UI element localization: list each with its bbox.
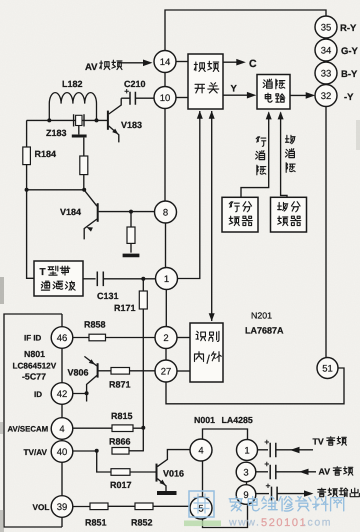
pin 2	[155, 327, 177, 349]
svg-text:TV/AV: TV/AV	[24, 448, 48, 457]
svg-text:39: 39	[57, 502, 68, 513]
polarity mark cap1	[265, 440, 269, 444]
wire R017 to V016 base	[130, 471, 156, 473]
svg-text:R-Y: R-Y	[340, 23, 357, 34]
label 通滤波	[41, 281, 49, 290]
box video switch 视频开关	[188, 54, 223, 109]
wire R852 to pin5	[153, 505, 190, 507]
wire pin10 to video switch	[176, 97, 188, 99]
resistor R866	[112, 448, 129, 455]
svg-text:.com: .com	[303, 517, 332, 529]
wire R871 to pin27	[130, 370, 156, 372]
wire bottom node rail	[27, 189, 85, 191]
svg-text:R866: R866	[109, 437, 131, 447]
svg-text:IF ID: IF ID	[24, 334, 42, 343]
wire R185 to bottom node	[83, 175, 85, 190]
node pin40 branch	[95, 449, 99, 453]
wire pin39 to R851	[73, 506, 90, 508]
inductor L182	[49, 93, 96, 121]
wire R815 to node	[133, 427, 143, 429]
svg-text:4: 4	[198, 445, 203, 456]
wire Y to blanking box	[223, 94, 253, 96]
resistor R171	[142, 279, 144, 291]
pin 5 of N001	[190, 497, 212, 519]
pin 1 of N001	[237, 440, 258, 461]
svg-text:B-Y: B-Y	[341, 69, 358, 80]
wire field-blank input	[281, 113, 287, 198]
resistor R184	[23, 147, 31, 165]
box line divider 行分频器	[222, 197, 258, 232]
label 电路	[265, 93, 272, 102]
wire node down to R017	[97, 451, 111, 472]
wire line-blank input	[241, 113, 269, 198]
svg-text:T: T	[40, 267, 46, 278]
label 识别	[196, 331, 205, 340]
label 内/外	[195, 352, 204, 362]
wire pin32 to pin51	[325, 106, 327, 357]
wire pin14 to pin10	[164, 73, 166, 87]
svg-text:Y: Y	[231, 84, 238, 95]
wire C output	[223, 61, 243, 63]
svg-text:42: 42	[57, 389, 68, 400]
pin 42	[51, 383, 73, 405]
pin 4 of N801	[51, 418, 73, 440]
Z183 bottom electrode bar	[78, 126, 80, 135]
pin 4 of N001	[190, 439, 212, 461]
wire AV video into pin14	[119, 62, 150, 64]
svg-text:520101: 520101	[261, 517, 307, 529]
wire V184 base to pin8	[99, 211, 155, 213]
wire pin14 to video switch	[176, 61, 188, 63]
wire pin3 to cap	[256, 471, 268, 473]
transistor V016	[156, 464, 158, 482]
svg-text:33: 33	[321, 68, 332, 79]
svg-text:R851: R851	[85, 518, 107, 528]
pin 1 of N201	[156, 268, 178, 290]
transistor V806	[97, 363, 99, 377]
label 场消隐 vertical	[285, 135, 295, 143]
svg-text:N801: N801	[24, 349, 45, 359]
pin 14	[154, 51, 176, 73]
polarity mark cap3	[266, 484, 270, 488]
pin 51	[317, 358, 338, 379]
svg-text:R171: R171	[114, 303, 136, 313]
label 行分	[229, 202, 239, 212]
svg-text:C131: C131	[97, 291, 119, 301]
label 音频输出	[318, 488, 326, 497]
svg-text:1: 1	[164, 274, 169, 285]
box IC N801	[4, 314, 62, 527]
watermark 家电维修资料网	[229, 497, 242, 511]
pin 35	[315, 16, 337, 38]
box field divider 场分频器	[271, 197, 307, 232]
svg-text:R852: R852	[131, 518, 153, 528]
svg-text:AV: AV	[85, 62, 98, 73]
wire pin46 to R858	[73, 337, 89, 339]
node at C131/R171	[141, 277, 145, 281]
wire R851 to R852	[108, 505, 135, 507]
pin 9 of N001	[236, 485, 256, 505]
ceramic filter Z183	[76, 115, 82, 125]
resistor R858	[89, 334, 106, 341]
wire pin4 to R815	[73, 427, 112, 429]
svg-text:32: 32	[321, 91, 332, 102]
pin 10	[154, 87, 176, 109]
wire cap to AV audio	[276, 471, 316, 473]
svg-text:LA4285: LA4285	[222, 415, 253, 425]
svg-text:C210: C210	[124, 79, 146, 89]
capacitor AV audio	[270, 465, 276, 480]
resistor R185 below Z183	[80, 156, 88, 175]
svg-text:2: 2	[163, 333, 168, 344]
svg-text:R184: R184	[35, 149, 57, 159]
pin 3 of N001	[236, 462, 256, 482]
box T-type bandpass filter	[34, 261, 83, 296]
pin 8	[155, 201, 177, 223]
wire pin10 to pin8	[164, 109, 166, 202]
capacitor C131	[83, 278, 96, 280]
svg-text:34: 34	[321, 45, 332, 56]
svg-text:40: 40	[57, 447, 68, 458]
svg-text:8: 8	[163, 207, 168, 218]
capacitor C210	[130, 92, 135, 105]
pin 39	[51, 496, 73, 518]
svg-text:35: 35	[321, 22, 332, 33]
polarity mark cap2	[265, 462, 269, 466]
resistor R below pin8 node	[127, 227, 135, 243]
box discriminator 识别内/外	[190, 323, 223, 382]
svg-text:VOL: VOL	[33, 503, 50, 512]
svg-text:N201: N201	[251, 311, 272, 321]
pin 33	[315, 62, 337, 84]
label 消隐	[263, 79, 272, 88]
wire cap to TV audio	[276, 449, 313, 451]
pin 40	[51, 441, 73, 463]
wire blanking to pin32	[290, 94, 312, 96]
svg-text:N001: N001	[194, 415, 215, 425]
node on base wire	[129, 210, 133, 214]
svg-text:R858: R858	[84, 320, 106, 330]
wire pin40 to node	[73, 450, 97, 452]
label 频器(2)	[278, 216, 288, 225]
svg-text:V806: V806	[68, 368, 89, 378]
svg-text:R017: R017	[110, 480, 132, 490]
wire pin42 to V806	[73, 393, 87, 401]
watermark logo box	[189, 491, 214, 517]
svg-text:14: 14	[160, 57, 171, 68]
wire pin27 to box	[177, 370, 190, 372]
wire R866 to R171 rail	[129, 450, 144, 452]
wire pin2 to pin27	[165, 349, 167, 361]
wire pin27 loop to pin51	[166, 368, 344, 404]
watermark green bar	[184, 521, 221, 527]
resistor R871	[111, 368, 130, 375]
svg-text:V184: V184	[60, 207, 81, 217]
wire L182-left down to R184	[26, 120, 28, 147]
wire top bus from pin14 to pin35	[165, 10, 326, 50]
resistor R851	[90, 503, 108, 510]
svg-text:4: 4	[59, 424, 64, 435]
svg-text:AV: AV	[319, 467, 331, 477]
wire pin1 to pin2	[165, 290, 167, 327]
svg-text:27: 27	[161, 366, 172, 377]
node bottom right	[82, 188, 86, 192]
svg-text:51: 51	[322, 363, 333, 374]
resistor R017	[111, 469, 130, 476]
svg-text:L182: L182	[62, 79, 83, 89]
capacitor audio out	[272, 487, 278, 501]
wire pin1 up to video switch	[178, 111, 200, 279]
wire R858 to pin2	[106, 337, 156, 339]
pin 46	[51, 327, 73, 349]
wire cap to audio out	[277, 493, 310, 495]
svg-text:LC864512V: LC864512V	[13, 362, 57, 371]
svg-text:ID: ID	[34, 390, 42, 399]
transistor V183	[107, 111, 109, 130]
svg-text:www.: www.	[228, 517, 261, 529]
svg-text:R871: R871	[109, 380, 131, 390]
pin 27	[155, 360, 177, 382]
svg-text:46: 46	[57, 333, 68, 344]
wire R184 to bottom rail and T-filter	[27, 165, 34, 279]
svg-text:G-Y: G-Y	[341, 46, 359, 57]
svg-text:AV/SECAM: AV/SECAM	[8, 425, 49, 434]
node pin42/V806	[85, 391, 89, 395]
node at L182 right	[95, 118, 99, 122]
svg-text:Z183: Z183	[46, 128, 67, 138]
svg-text:-5C77: -5C77	[22, 372, 46, 382]
node at L182 left	[47, 118, 51, 122]
ground under resistor	[123, 254, 140, 258]
svg-text:1: 1	[244, 445, 249, 456]
box blanking circuit 消隐电路	[257, 75, 290, 110]
svg-text:V183: V183	[121, 120, 142, 130]
pin 34	[315, 39, 337, 61]
ground under V016	[157, 491, 177, 495]
label 视频	[194, 62, 205, 71]
label 行消隐 vertical	[256, 137, 266, 147]
svg-text:-Y: -Y	[344, 92, 354, 103]
svg-text:R815: R815	[111, 411, 133, 421]
svg-text:C: C	[249, 58, 257, 70]
wire pin8 to pin1	[165, 223, 167, 268]
wire video switch to discriminator box	[211, 111, 213, 321]
svg-text:TV: TV	[313, 437, 324, 447]
polarity mark C210	[125, 89, 129, 93]
svg-text:V016: V016	[163, 469, 184, 479]
wire pin2 to box	[177, 337, 190, 339]
capacitor TV audio	[270, 443, 276, 458]
box IC N001 LA4285	[203, 429, 248, 440]
node bottom left	[25, 188, 29, 192]
wire base rail V183	[27, 119, 108, 121]
wire pin9 to cap	[256, 493, 269, 495]
label 场分	[278, 202, 288, 211]
label 频器(1)	[229, 216, 239, 225]
resistor R815	[112, 425, 133, 432]
transistor V184	[97, 203, 99, 222]
svg-text:LA7687A: LA7687A	[245, 326, 284, 336]
svg-text:3: 3	[243, 467, 248, 478]
resistor R852	[135, 503, 153, 510]
svg-text:10: 10	[160, 93, 171, 104]
wire pin1 to cap	[258, 449, 269, 451]
pin 32	[315, 85, 337, 107]
label 开关	[195, 84, 204, 93]
node R815/R171	[141, 426, 145, 430]
